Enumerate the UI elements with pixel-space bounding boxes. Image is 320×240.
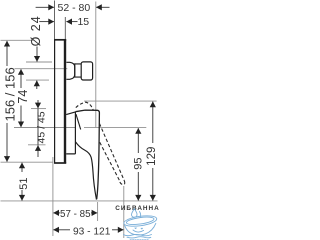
face smile (133, 230, 144, 232)
dashed lever (raised position) top arc (76, 102, 93, 110)
watermark bathtub logo (123, 209, 157, 240)
dimension 15 (39, 16, 89, 28)
extension line dashed-lever top (129 top) (84, 100, 157, 102)
lever inner slant line (76, 114, 81, 129)
dimension 57-85 (bottom row1, arrows inside pointing out) (53, 209, 97, 220)
svg-text:57 - 85: 57 - 85 (60, 209, 91, 220)
dashed lever tip cap (119, 180, 124, 184)
dimension 45/45 (vertical, arrows outside) (36, 100, 48, 157)
extension line dashed tip (93-121 right, vertical) (123, 186, 125, 238)
dashed lever long edge A (99, 123, 124, 180)
dimension 129 (vertical far right) (146, 102, 158, 201)
svg-text:93 - 121: 93 - 121 (73, 227, 111, 238)
svg-text:129: 129 (146, 147, 158, 166)
svg-text:52 - 80: 52 - 80 (58, 2, 91, 14)
wall plate left edge (54, 39, 56, 163)
dimension 93-121 (bottom row2) (53, 227, 123, 238)
spout aerator block (81, 62, 92, 80)
extension line lever tip plane (52-80 right, vertical) (95, 2, 97, 128)
svg-text:СИБВАННА: СИБВАННА (115, 205, 160, 212)
tub rim outer (123, 214, 157, 228)
extension line spout top (d24 top) (26, 61, 52, 63)
spout cylinder (75, 63, 82, 77)
svg-text:45 / 45: 45 / 45 (36, 111, 48, 143)
svg-text:51: 51 (18, 178, 30, 190)
face eyes (135, 227, 142, 230)
tub rim inner (126, 216, 154, 226)
wall plate top edge (54, 39, 66, 41)
dimension 52-80 top (36, 2, 110, 14)
tiny url text (130, 238, 149, 240)
extension line top of plate (156 top) (1, 39, 34, 41)
dimension 156/156 (vertical far left) (2, 41, 17, 162)
extension line plate right above (vertical) (64, 17, 66, 39)
tub bowl (125, 223, 156, 235)
svg-text:15: 15 (77, 16, 89, 28)
lever grip top and right edge (75, 110, 99, 199)
dimension d24 (vertical, left) (29, 15, 43, 89)
lever blade left edge (75, 142, 96, 200)
spout escutcheon cone (66, 62, 74, 79)
extension line lever top (45/45 top) (31, 108, 46, 110)
extension line wall plane bottom (vertical) (52, 157, 54, 236)
wall plate bottom edge (54, 162, 66, 164)
extension line 45/45 bottom (28, 144, 46, 146)
handle neck block (66, 112, 75, 154)
spout centerline (15, 68, 68, 70)
extension line plate left above (vertical) (54, 1, 56, 40)
extension line lever tip bottom (57-85 right, vertical) (97, 202, 99, 221)
dimension 74 (vertical) (16, 69, 30, 127)
dashed lever edge B (99, 141, 120, 181)
waves (124, 234, 152, 235)
dimension 95 (vertical right) (132, 128, 144, 200)
wall plate right edge (thick) (64, 39, 66, 163)
svg-text:Ø 24: Ø 24 (29, 15, 43, 46)
svg-text:74: 74 (16, 90, 30, 104)
water drop above tub (131, 209, 137, 218)
handle centerline left segment (14, 127, 75, 129)
extension line bottom (floor, 51/95/129 bottom) (1, 200, 158, 202)
dimension 51 (vertical) (18, 163, 30, 201)
extension line plate bottom (156 bottom / 51 top) (1, 161, 53, 163)
extension line spout bottom (d24 bottom) (26, 79, 49, 81)
svg-text:95: 95 (132, 158, 144, 170)
handle centerline right segment (95 top ext) (84, 127, 146, 129)
